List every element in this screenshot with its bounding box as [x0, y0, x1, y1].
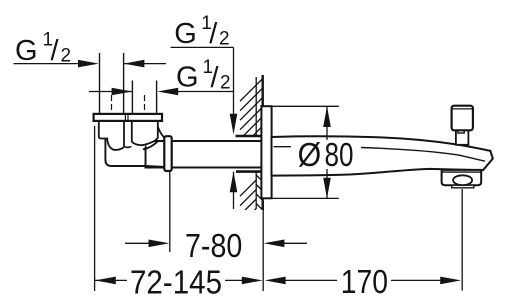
- G 1/2 label 2 vertical leader with down arrow at wall hole: [233, 47, 235, 118]
- middle pedestal between cups: [124, 120, 132, 147]
- svg-text:G: G: [15, 35, 38, 67]
- flange division lines: [124, 114, 126, 121]
- wire: horizontal supply pipe through wall: [146, 141, 262, 168]
- dimension 170 line: [285, 279, 337, 281]
- extension line below wall face: [262, 201, 264, 291]
- elbow body to pipe transition curve: [143, 141, 158, 150]
- svg-text:7-80: 7-80: [185, 228, 242, 265]
- dimension arrow right pipe left side: [89, 91, 132, 93]
- dimension 7-80 right arrow with tail: [283, 242, 307, 244]
- right union nut (cup): [132, 120, 158, 146]
- wall hatch: [240, 77, 263, 225]
- dimension Ø80 line lower segment with down arrow: [326, 169, 328, 198]
- flange bar of wall union: [94, 114, 162, 121]
- svg-text:80: 80: [325, 137, 354, 174]
- right pipe walls: [131, 81, 133, 114]
- diverter knob: [452, 106, 473, 131]
- dimension Ø80 line upper segment with up arrow: [326, 106, 328, 140]
- G 1/2 label 3 underline leader with left arrow to right pipe: [175, 91, 234, 93]
- elbow body top arc in gap between nuts: [124, 146, 131, 147]
- svg-text:G: G: [174, 18, 197, 50]
- spout body: [272, 136, 493, 175]
- extension line spout outlet centerline: [461, 189, 463, 291]
- right pipe centerline: [144, 95, 146, 113]
- dimension arrow left pipe right side: [124, 63, 166, 65]
- G 1/2 label 1 leader with arrow to left pipe: [14, 63, 81, 65]
- extension line for 7-80 at union: [169, 171, 171, 252]
- diverter stem: [456, 130, 469, 145]
- svg-text:72-145: 72-145: [130, 264, 222, 301]
- wall hole bottom edge: [236, 170, 263, 173]
- left pipe walls: [99, 53, 101, 114]
- elbow body left edge: [105, 139, 164, 167]
- svg-text:2: 2: [219, 29, 230, 50]
- diverter knob seam: [453, 108, 472, 110]
- svg-text:/: /: [209, 18, 218, 50]
- aerator screen oval: [453, 175, 472, 185]
- escutcheon flange on wall: [261, 106, 271, 198]
- fitting swell curve from right nut to union ring: [158, 127, 164, 138]
- spout inner contour line left segment: [274, 146, 292, 148]
- extension line left for 72-145: [94, 126, 96, 291]
- dimension Ø80 bottom extension line: [272, 197, 339, 199]
- left pipe centerline: [111, 95, 113, 113]
- aerator outlet bar: [452, 185, 474, 188]
- dimension 7-80 left line with arrow: [125, 242, 150, 244]
- up arrow at wall hole bottom: [233, 172, 235, 209]
- svg-text:G: G: [176, 62, 199, 94]
- svg-text:/: /: [51, 35, 60, 67]
- union ring nut on pipe: [164, 136, 171, 171]
- wall face line: [262, 75, 264, 210]
- wall hole top edge: [236, 135, 263, 138]
- spout inner contour line right segment: [361, 148, 485, 162]
- svg-text:Ø: Ø: [298, 137, 322, 174]
- dimension Ø80 top extension line: [273, 105, 339, 107]
- aerator housing: [442, 170, 482, 185]
- left union nut (cup): [99, 120, 124, 150]
- diverter knob notch: [458, 130, 464, 133]
- svg-text:/: /: [211, 62, 220, 94]
- dimension 72-145 line: [95, 279, 127, 281]
- svg-text:2: 2: [220, 72, 231, 93]
- svg-text:170: 170: [341, 264, 388, 301]
- elbow body of wall union: [105, 139, 145, 166]
- G 1/2 label 2 underline: [171, 46, 234, 48]
